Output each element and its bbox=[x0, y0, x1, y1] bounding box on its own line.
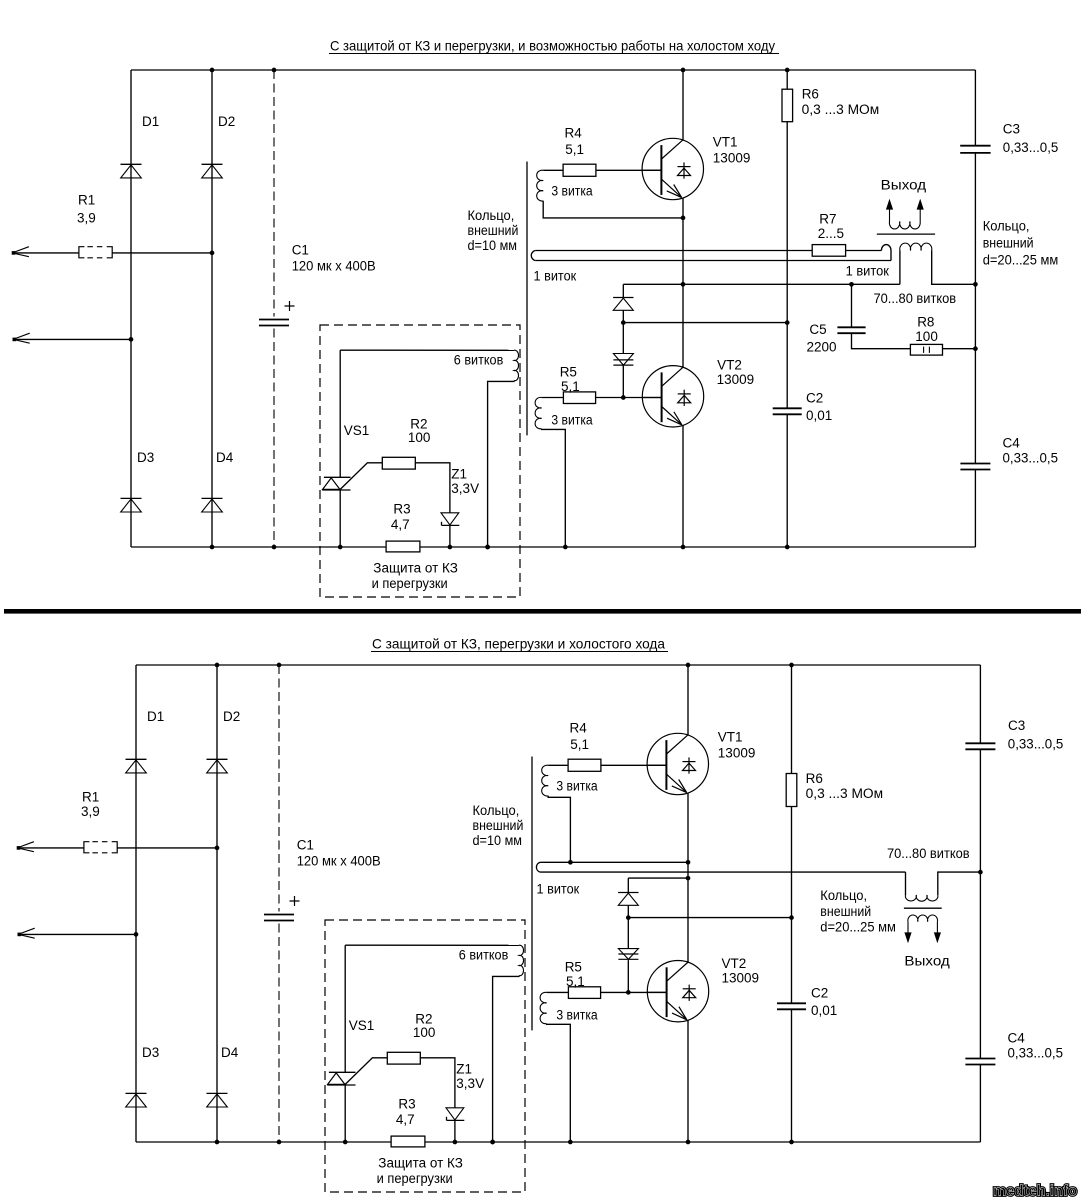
thyristor VS1 bbox=[339, 350, 341, 477]
wire: VS1 top wire to 6-turn winding (2) bbox=[345, 944, 519, 946]
svg-text:4,7: 4,7 bbox=[391, 517, 410, 532]
AC input arrow 2 bbox=[13, 333, 30, 343]
feedback loop 1 виток (hairpin top) bbox=[535, 250, 812, 252]
wire: right rail upper segment (2) bbox=[979, 665, 981, 743]
svg-text:C2: C2 bbox=[811, 986, 828, 1001]
capacitor C1 (2) bbox=[264, 914, 294, 916]
feedback line A (midpoint to turn) bbox=[540, 861, 688, 863]
svg-text:1 виток: 1 виток bbox=[534, 268, 577, 283]
svg-text:D2: D2 bbox=[218, 114, 235, 129]
svg-text:Защита от КЗ: Защита от КЗ bbox=[378, 1156, 463, 1171]
diode D2 (2) bbox=[207, 758, 228, 760]
svg-text:0,01: 0,01 bbox=[806, 408, 832, 423]
diode D3 bbox=[121, 497, 142, 499]
svg-text:VT1: VT1 bbox=[718, 729, 743, 744]
zener Z1 (2) bbox=[446, 1108, 464, 1120]
wire: winding return to rail bbox=[542, 429, 566, 547]
wire: right rail middle segment (2) bbox=[979, 749, 981, 1058]
hairpin bottom return bbox=[535, 260, 891, 262]
svg-text:R8: R8 bbox=[917, 314, 934, 329]
svg-text:C3: C3 bbox=[1008, 718, 1025, 733]
svg-text:13009: 13009 bbox=[713, 150, 751, 165]
svg-text:C1: C1 bbox=[297, 838, 314, 853]
svg-text:D1: D1 bbox=[147, 709, 164, 724]
svg-text:С защитой от КЗ, перегрузки и: С защитой от КЗ, перегрузки и холостого … bbox=[372, 637, 665, 652]
svg-text:и перегрузки: и перегрузки bbox=[377, 1171, 453, 1186]
wire: C5 top lead bbox=[851, 284, 853, 327]
svg-text:2200: 2200 bbox=[807, 340, 837, 355]
svg-text:100: 100 bbox=[413, 1025, 436, 1040]
junction dots on bottom rail (2) bbox=[215, 1140, 220, 1145]
transistor VT2 bbox=[642, 366, 703, 427]
wire: chain-mid to C2 (2) bbox=[791, 918, 793, 1004]
svg-text:d=20...25 мм: d=20...25 мм bbox=[820, 919, 896, 934]
resistor R3 (in series with rail) (2) bbox=[391, 1136, 425, 1147]
svg-text:3,3V: 3,3V bbox=[456, 1076, 484, 1091]
wire: chain mid to R6/C2 branch bbox=[623, 322, 787, 324]
wire: bottom return rail bbox=[131, 546, 975, 548]
junction: winding return / bottom rail (2) bbox=[490, 1140, 495, 1145]
wire: R6 to chain-mid wire bbox=[786, 122, 788, 323]
thyristor VS1 (2) bbox=[344, 945, 346, 1072]
resistor R4 bbox=[563, 164, 596, 176]
svg-text:D4: D4 bbox=[216, 450, 234, 465]
wire: VT2 emitter to bottom rail (2) bbox=[687, 1020, 689, 1142]
output terminal arrow right bbox=[919, 202, 921, 221]
svg-text:Кольцо,: Кольцо, bbox=[473, 803, 520, 818]
capacitor C4 (2) bbox=[965, 1058, 995, 1060]
svg-text:R3: R3 bbox=[398, 1096, 415, 1111]
winding 6 витков bbox=[514, 350, 519, 381]
primary winding 70...80 витков bbox=[900, 243, 932, 250]
svg-text:120 мк x 400В: 120 мк x 400В bbox=[297, 854, 381, 869]
wire: R1 to D2 branch (2) bbox=[117, 847, 217, 849]
zener Z1 bbox=[441, 513, 459, 525]
svg-text:3 витка: 3 витка bbox=[551, 184, 593, 199]
svg-text:0,33...0,5: 0,33...0,5 bbox=[1008, 737, 1064, 752]
capacitor C1 bbox=[259, 319, 289, 321]
winding 3 витка (VT2 base) (2) bbox=[540, 992, 546, 1023]
wire: right rail middle segment bbox=[974, 153, 976, 464]
wire: C1 dashed link lower (2) bbox=[278, 924, 280, 1143]
winding 6 витков (2) bbox=[519, 945, 524, 976]
wire: left vertical (D1-D3 branch) bbox=[130, 70, 132, 547]
junction: winding return / midpoint vertical bbox=[681, 216, 686, 221]
svg-text:120 мк x 400В: 120 мк x 400В bbox=[292, 259, 376, 274]
wire: VS1 top wire to 6-turn winding bbox=[340, 349, 514, 351]
wire: winding bottom to rail bbox=[488, 381, 514, 547]
svg-text:0,33...0,5: 0,33...0,5 bbox=[1003, 451, 1059, 466]
resistor R5 bbox=[563, 392, 595, 404]
winding 3 витка (VT1 base) (2) bbox=[542, 765, 549, 796]
wire: winding to R5 (2) bbox=[547, 991, 569, 993]
plus sign of C1 (2) bbox=[290, 896, 300, 906]
wire: C1 dashed link lower bbox=[273, 329, 275, 548]
wire: chain to VT2 base (2) bbox=[627, 960, 629, 992]
svg-text:medteh.info: medteh.info bbox=[993, 1183, 1077, 1200]
wire: VT1 collector to top rail bbox=[682, 70, 684, 140]
svg-text:6 витков: 6 витков bbox=[454, 353, 504, 368]
svg-text:VS1: VS1 bbox=[349, 1018, 375, 1033]
svg-text:d=10 мм: d=10 мм bbox=[468, 238, 518, 253]
svg-text:d=20...25 мм: d=20...25 мм bbox=[983, 253, 1059, 268]
output transformer core (2) bbox=[904, 907, 942, 909]
wire: right rail upper segment bbox=[974, 70, 976, 146]
wire: left vertical (2) bbox=[135, 665, 137, 1142]
fusible resistor R1 bbox=[79, 247, 85, 258]
resistor R8 bbox=[910, 344, 942, 355]
wire: winding right leg bbox=[932, 251, 976, 285]
wire: diode chain to midpoint (2) bbox=[628, 877, 688, 879]
hairpin left curl (2) bbox=[536, 862, 540, 872]
diode VD2 (base protection) bbox=[613, 354, 633, 366]
svg-text:Кольцо,: Кольцо, bbox=[820, 888, 867, 903]
svg-text:и перегрузки: и перегрузки bbox=[372, 576, 448, 591]
svg-text:0,3 ...3 МОм: 0,3 ...3 МОм bbox=[802, 102, 880, 117]
wire: Z1 to rail bbox=[449, 525, 451, 547]
wire: VT2 emitter to bottom rail bbox=[682, 425, 684, 547]
svg-text:Выход: Выход bbox=[904, 954, 950, 969]
svg-text:C2: C2 bbox=[806, 391, 823, 406]
svg-text:VS1: VS1 bbox=[344, 423, 370, 438]
diode D1 bbox=[121, 163, 142, 165]
wire: winding left leg bbox=[899, 251, 901, 285]
diode D2 bbox=[202, 163, 223, 165]
junction: arrow2 / D1 branch (2) bbox=[134, 932, 139, 937]
protection box (dashed) (2) bbox=[325, 920, 525, 1192]
svg-text:3,9: 3,9 bbox=[77, 211, 96, 226]
capacitor C3 (2) bbox=[965, 742, 995, 744]
svg-text:2...5: 2...5 bbox=[818, 226, 844, 241]
svg-text:С защитой от КЗ и перегрузки,: С защитой от КЗ и перегрузки, и возможно… bbox=[330, 39, 775, 54]
svg-text:5,1: 5,1 bbox=[561, 379, 580, 394]
svg-text:6 витков: 6 витков bbox=[459, 948, 509, 963]
junction: chain mid / R6 wire (2) bbox=[626, 915, 631, 920]
svg-text:Выход: Выход bbox=[881, 177, 927, 192]
svg-text:Z1: Z1 bbox=[451, 466, 467, 481]
svg-text:0,33...0,5: 0,33...0,5 bbox=[1008, 1046, 1064, 1061]
junction: R6/C2 branch (2) bbox=[789, 915, 794, 920]
svg-text:5,1: 5,1 bbox=[570, 737, 589, 752]
svg-text:Кольцо,: Кольцо, bbox=[468, 208, 515, 223]
resistor R2 bbox=[382, 457, 415, 469]
svg-text:70...80 витков: 70...80 витков bbox=[874, 291, 957, 306]
junction: R1 wire / D2 branch bbox=[210, 251, 215, 256]
wire: winding to R4 (2) bbox=[548, 764, 568, 766]
wire: R1 to D2 branch bbox=[112, 252, 212, 254]
wire: bottom return rail (2) bbox=[136, 1141, 980, 1143]
svg-text:R3: R3 bbox=[393, 501, 410, 516]
diode D4 (2) bbox=[207, 1092, 228, 1094]
wire: D2-D4 branch vertical bbox=[211, 70, 213, 547]
svg-text:R1: R1 bbox=[78, 193, 95, 208]
svg-text:0,3 ...3 МОм: 0,3 ...3 МОм bbox=[806, 786, 884, 801]
wire: R6 to chain-mid wire (2) bbox=[791, 807, 793, 918]
svg-text:R5: R5 bbox=[565, 960, 582, 975]
wire: Z1 to rail (2) bbox=[454, 1120, 456, 1142]
svg-text:13009: 13009 bbox=[722, 971, 760, 986]
svg-text:70...80 витков: 70...80 витков bbox=[887, 846, 970, 861]
svg-text:3,9: 3,9 bbox=[81, 804, 100, 819]
svg-text:5,1: 5,1 bbox=[566, 974, 585, 989]
wire: R4 to VT1 base bbox=[596, 169, 662, 171]
wire: VS1 gate to R2 (2) bbox=[345, 1058, 387, 1085]
wire: arrow2 to D1 branch bbox=[15, 338, 131, 340]
junction: R8 / right rail bbox=[973, 346, 978, 351]
wire: R2 to Z1 (2) bbox=[420, 1058, 455, 1108]
transistor VT2 (2) bbox=[647, 961, 708, 1022]
diode VD1 (base protection) (2) bbox=[618, 892, 638, 894]
svg-text:R5: R5 bbox=[560, 365, 577, 380]
wire: winding bottom to rail (2) bbox=[493, 976, 519, 1142]
svg-text:D3: D3 bbox=[137, 450, 154, 465]
diode VD2 (base protection) (2) bbox=[618, 949, 638, 960]
junction: midpoint node bbox=[681, 282, 686, 287]
svg-text:VT2: VT2 bbox=[717, 358, 742, 373]
resistor R5 (2) bbox=[568, 987, 600, 999]
wire: D2-D4 branch vertical (2) bbox=[216, 665, 218, 1142]
diode D4 bbox=[202, 497, 223, 499]
resistor R4 (2) bbox=[568, 759, 601, 771]
svg-text:3 витка: 3 витка bbox=[556, 1008, 598, 1023]
resistor R7 bbox=[812, 245, 845, 257]
svg-text:3,3V: 3,3V bbox=[451, 481, 479, 496]
wire: winding to R5 bbox=[542, 397, 564, 399]
svg-text:внешний: внешний bbox=[820, 904, 871, 919]
wire: chain mid to R6/C2 branch (2) bbox=[628, 917, 791, 919]
protection box (dashed) bbox=[320, 325, 520, 597]
svg-text:0,33...0,5: 0,33...0,5 bbox=[1003, 140, 1059, 155]
wire: R8 to right rail bbox=[943, 348, 976, 350]
wire: chain to VT2 base bbox=[622, 365, 624, 397]
resistor R6 (2) bbox=[786, 774, 797, 807]
wire: winding return to rail (2) bbox=[547, 1024, 571, 1142]
svg-text:5,1: 5,1 bbox=[565, 142, 584, 157]
output terminal arrow left (2) bbox=[907, 922, 909, 940]
diode D1 (2) bbox=[126, 758, 147, 760]
diode D3 (2) bbox=[126, 1092, 147, 1094]
junction: chain mid / R6 wire bbox=[621, 320, 626, 325]
junction: winding / right rail (2) bbox=[978, 870, 983, 875]
svg-text:R6: R6 bbox=[802, 86, 819, 101]
wire: R5 to VT2 base (2) bbox=[601, 991, 667, 993]
wire: diode chain top (2) bbox=[627, 878, 629, 892]
wire: VT1 collector to top rail (2) bbox=[687, 665, 689, 735]
wire: VS1 gate to R2 bbox=[340, 463, 382, 490]
capacitor C5 bbox=[837, 326, 865, 328]
feedback line B (turn to output winding) bbox=[540, 871, 905, 873]
junction: winding return / bottom rail bbox=[485, 545, 490, 550]
junction: R1 wire / D2 branch (2) bbox=[215, 846, 220, 851]
wire: C2 to bottom rail (2) bbox=[791, 1009, 793, 1142]
svg-text:13009: 13009 bbox=[717, 372, 755, 387]
wire: winding to R4 bbox=[543, 169, 563, 171]
junction dots on top rail (2) bbox=[215, 663, 220, 668]
fusible resistor R1 (2) bbox=[84, 842, 90, 853]
wire: chain mid upper (2) bbox=[627, 905, 629, 948]
wire: winding return to emitter node bbox=[543, 201, 683, 218]
wire: arrow1 to fuse R1 bbox=[14, 252, 79, 254]
junction: midpoint / feedback line A (2) bbox=[686, 860, 691, 865]
capacitor C3 bbox=[960, 145, 990, 147]
AC input arrow 1 (2) bbox=[17, 842, 34, 852]
wire: midpoint horizontal bbox=[623, 283, 900, 285]
svg-text:C3: C3 bbox=[1003, 121, 1020, 136]
wire: C5 to R8 bbox=[852, 333, 911, 349]
svg-text:1 виток: 1 виток bbox=[846, 264, 889, 279]
junction dots on bottom rail bbox=[210, 545, 215, 550]
junction: chain / VT2 base wire (2) bbox=[626, 990, 631, 995]
feedback transformer core bbox=[526, 162, 528, 436]
output transformer core bbox=[877, 233, 935, 235]
svg-text:0,01: 0,01 bbox=[811, 1003, 837, 1018]
svg-text:C1: C1 bbox=[292, 243, 309, 258]
svg-text:13009: 13009 bbox=[718, 745, 756, 760]
wire: VT1 emitter to VT2 collector bbox=[682, 198, 684, 368]
output secondary winding (2) bbox=[908, 915, 938, 922]
svg-text:внешний: внешний bbox=[983, 236, 1034, 251]
junction: midpoint / diode chain wire (2) bbox=[686, 876, 691, 881]
wire: R6 top lead (2) bbox=[791, 665, 793, 774]
svg-text:D4: D4 bbox=[221, 1045, 239, 1060]
wire: right rail lower segment bbox=[974, 470, 976, 548]
svg-text:3 витка: 3 витка bbox=[556, 779, 598, 794]
svg-text:1 виток: 1 виток bbox=[537, 882, 580, 897]
primary winding 70...80 витков (2) bbox=[905, 895, 938, 901]
svg-text:100: 100 bbox=[915, 329, 938, 344]
svg-text:Z1: Z1 bbox=[456, 1061, 472, 1076]
svg-text:3 витка: 3 витка bbox=[551, 413, 593, 428]
output terminal arrow left bbox=[889, 202, 891, 221]
svg-text:R4: R4 bbox=[570, 721, 588, 736]
wire: C2 to bottom rail bbox=[786, 414, 788, 547]
wire: top supply rail (2) bbox=[136, 664, 980, 666]
winding 3 витка (VT1 base) bbox=[537, 170, 544, 201]
resistor R3 (in series with rail) bbox=[386, 541, 420, 552]
svg-text:внешний: внешний bbox=[468, 223, 519, 238]
junction: chain / VT2 base wire bbox=[621, 395, 626, 400]
wire: chain mid upper bbox=[622, 310, 624, 353]
output secondary winding bbox=[889, 222, 920, 229]
AC input arrow 1 bbox=[12, 247, 29, 257]
capacitor C4 bbox=[960, 463, 990, 465]
svg-text:C5: C5 bbox=[809, 322, 826, 337]
wire: arrow2 to D1 branch (2) bbox=[20, 933, 136, 935]
transistor VT1 (2) bbox=[647, 733, 708, 794]
resistor R2 (2) bbox=[387, 1052, 420, 1064]
wire: winding return to feedback line (2) bbox=[548, 796, 570, 863]
junction: winding return / feedback line (2) bbox=[568, 860, 573, 865]
transistor VT1 bbox=[642, 138, 703, 199]
wire: winding right leg (2) bbox=[938, 872, 981, 895]
junction dots on top rail bbox=[210, 68, 215, 73]
junction: midpoint / C5 branch bbox=[849, 282, 854, 287]
junction: R6/C2 branch bbox=[785, 320, 790, 325]
svg-text:R4: R4 bbox=[565, 126, 583, 141]
junction: winding / right rail bbox=[973, 282, 978, 287]
junction: arrow2 / D1 branch bbox=[129, 337, 134, 342]
wire: R7 to output loop turn bbox=[846, 250, 882, 252]
capacitor C2 bbox=[773, 407, 802, 409]
wire: C1 dashed link upper (2) bbox=[278, 665, 280, 912]
svg-text:100: 100 bbox=[408, 430, 431, 445]
title underline bbox=[371, 651, 668, 653]
plus sign of C1 bbox=[285, 301, 295, 311]
AC input arrow 2 (2) bbox=[18, 928, 35, 938]
diode VD1 (base protection) bbox=[613, 297, 633, 299]
wire: top supply rail bbox=[131, 69, 975, 71]
wire: R4 to VT1 base (2) bbox=[601, 764, 667, 766]
svg-text:внешний: внешний bbox=[473, 818, 524, 833]
svg-text:C4: C4 bbox=[1008, 1031, 1026, 1046]
wire: C1 dashed link upper bbox=[273, 70, 275, 317]
separator bar bbox=[4, 609, 1081, 614]
wire: R5 to VT2 base bbox=[596, 397, 662, 399]
wire: chain-mid to C2 bbox=[786, 323, 788, 409]
svg-text:Защита от КЗ: Защита от КЗ bbox=[373, 561, 458, 576]
svg-text:D1: D1 bbox=[142, 114, 159, 129]
svg-text:R7: R7 bbox=[819, 212, 836, 227]
svg-text:VT1: VT1 bbox=[713, 134, 738, 149]
svg-text:C4: C4 bbox=[1003, 436, 1021, 451]
wire: diode chain top bbox=[622, 284, 624, 297]
svg-text:D3: D3 bbox=[142, 1045, 159, 1060]
svg-text:Кольцо,: Кольцо, bbox=[983, 219, 1030, 234]
wire: R2 to Z1 bbox=[415, 463, 450, 513]
wire: line B to primary winding (2) bbox=[905, 872, 907, 895]
output terminal arrow right (2) bbox=[936, 922, 938, 940]
svg-text:d=10 мм: d=10 мм bbox=[473, 833, 523, 848]
wire: R6 top lead bbox=[786, 70, 788, 89]
svg-text:4,7: 4,7 bbox=[396, 1112, 415, 1127]
svg-text:R6: R6 bbox=[806, 771, 823, 786]
svg-text:R1: R1 bbox=[82, 790, 99, 805]
winding 3 витка (VT2 base) bbox=[535, 397, 541, 428]
wire: VT1 emitter to VT2 collector (2) bbox=[687, 793, 689, 963]
svg-text:VT2: VT2 bbox=[722, 956, 747, 971]
wire: arrow1 to fuse R1 (2) bbox=[19, 847, 84, 849]
resistor R6 bbox=[782, 89, 793, 122]
output transformer 1-turn loop bbox=[881, 245, 891, 261]
wire: right rail lower segment (2) bbox=[979, 1065, 981, 1143]
capacitor C2 (2) bbox=[777, 1002, 806, 1004]
hairpin left curl bbox=[531, 251, 535, 261]
svg-text:D2: D2 bbox=[223, 709, 240, 724]
title underline bbox=[329, 53, 779, 55]
feedback transformer core (2) bbox=[531, 757, 533, 1031]
